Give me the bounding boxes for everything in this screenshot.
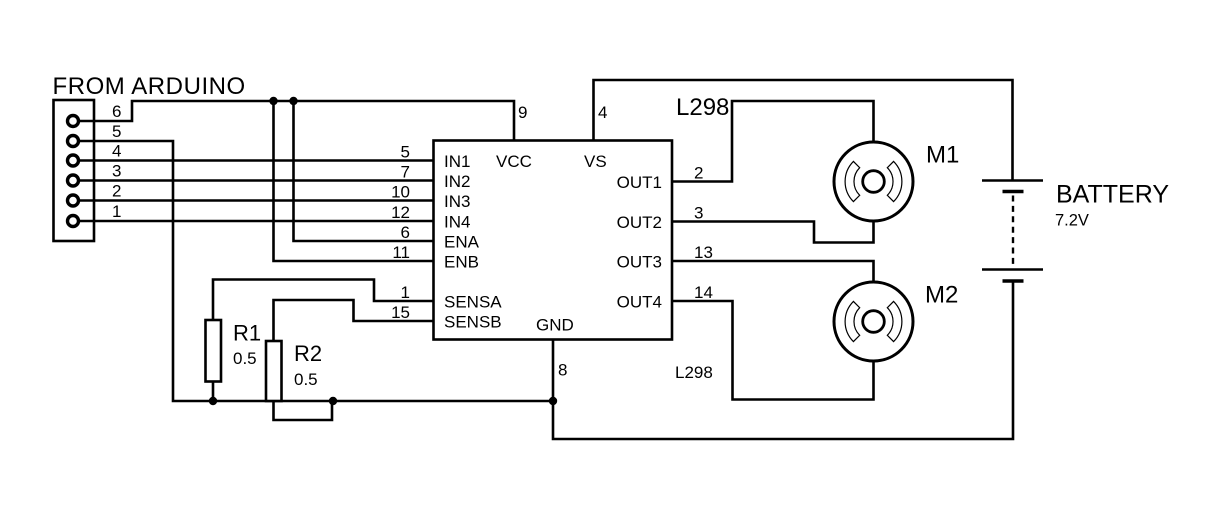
svg-text:1: 1 (401, 283, 410, 302)
svg-text:7: 7 (401, 163, 410, 182)
svg-text:VS: VS (584, 152, 607, 171)
wire OUT3 to M2 top (672, 261, 874, 282)
svg-text:0.5: 0.5 (294, 370, 318, 389)
wire pin2 to IN3 (79, 199, 433, 202)
wire OUT2 to M1 bottom (672, 222, 874, 243)
svg-text:R1: R1 (233, 321, 261, 346)
svg-text:15: 15 (391, 303, 410, 322)
svg-text:6: 6 (401, 223, 410, 242)
svg-text:OUT3: OUT3 (617, 253, 662, 272)
svg-text:5: 5 (401, 143, 410, 162)
svg-text:4: 4 (112, 142, 121, 161)
svg-text:GND: GND (536, 316, 574, 335)
wire GND to battery bottom (553, 281, 1013, 439)
wire pin5 to ground rail (79, 141, 553, 401)
svg-text:9: 9 (518, 103, 527, 122)
svg-text:ENB: ENB (444, 253, 479, 272)
svg-text:13: 13 (694, 243, 713, 262)
svg-text:M1: M1 (926, 142, 959, 169)
svg-text:OUT1: OUT1 (617, 173, 662, 192)
connector pin circle 5 (68, 136, 79, 147)
svg-text:L298: L298 (676, 94, 729, 121)
svg-text:6: 6 (112, 102, 121, 121)
svg-text:14: 14 (694, 283, 713, 302)
svg-text:12: 12 (391, 203, 410, 222)
svg-text:IN1: IN1 (444, 152, 470, 171)
node junction R1 ground (209, 397, 217, 405)
wire R2 bottom loop (274, 401, 333, 420)
connector J1 body (54, 100, 95, 241)
svg-text:OUT2: OUT2 (617, 213, 662, 232)
wire OUT1 to M1 top (672, 101, 874, 182)
connector pin circle 6 (68, 116, 79, 127)
svg-text:IN3: IN3 (444, 192, 470, 211)
battery BT1 (982, 181, 1043, 282)
svg-text:4: 4 (598, 103, 607, 122)
node junction A (269, 97, 277, 105)
svg-text:BATTERY: BATTERY (1056, 181, 1169, 209)
wire junction A to ENB (274, 101, 434, 261)
svg-text:FROM ARDUINO: FROM ARDUINO (53, 73, 246, 100)
motor M1 (834, 142, 913, 221)
connector pin circle 3 (68, 175, 79, 186)
node junction R2 ground (329, 397, 337, 405)
svg-text:10: 10 (391, 183, 410, 202)
motor M2 (834, 282, 913, 361)
svg-text:3: 3 (694, 204, 703, 223)
svg-text:ENA: ENA (444, 233, 480, 252)
connector pin circle 4 (68, 155, 79, 166)
wire pin6 to VCC (79, 101, 514, 140)
node junction ground rail (549, 397, 557, 405)
svg-text:5: 5 (112, 122, 121, 141)
svg-text:11: 11 (392, 243, 410, 262)
node junction B (289, 97, 297, 105)
wire junction B to ENA (294, 101, 434, 241)
wire pin3 to IN2 (79, 179, 433, 182)
op IC U1 L298 body (434, 141, 673, 340)
wire pin4 to IN1 (79, 159, 433, 162)
wire SENSB to R2 (274, 300, 434, 341)
svg-text:SENSB: SENSB (444, 313, 502, 332)
svg-text:1: 1 (112, 202, 121, 221)
svg-text:IN4: IN4 (444, 213, 470, 232)
svg-text:2: 2 (112, 182, 121, 201)
svg-text:7.2V: 7.2V (1055, 212, 1089, 230)
resistor R1 (206, 320, 222, 382)
wire pin1 to IN4 (79, 220, 433, 223)
wire VS to battery top (594, 80, 1013, 180)
svg-text:M2: M2 (925, 282, 958, 309)
connector pin circle 2 (68, 195, 79, 206)
svg-text:R2: R2 (294, 341, 322, 366)
wire OUT4 to M2 bottom (672, 301, 874, 400)
connector pin circle 1 (68, 216, 79, 227)
wire R1 bottom (212, 382, 215, 402)
svg-text:OUT4: OUT4 (617, 293, 662, 312)
svg-text:2: 2 (694, 164, 703, 183)
svg-text:L298: L298 (675, 363, 713, 382)
wire SENSA to R1 (213, 280, 433, 321)
svg-text:VCC: VCC (496, 152, 532, 171)
svg-text:8: 8 (558, 361, 567, 380)
svg-text:SENSA: SENSA (444, 293, 502, 312)
svg-text:IN2: IN2 (444, 172, 470, 191)
svg-text:3: 3 (112, 162, 121, 181)
resistor R2 (266, 341, 282, 401)
svg-text:0.5: 0.5 (233, 349, 257, 368)
